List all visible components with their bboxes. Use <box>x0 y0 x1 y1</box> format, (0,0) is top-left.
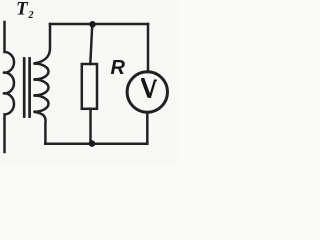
wire top horizontal <box>50 23 148 26</box>
svg-text:T: T <box>16 0 29 20</box>
node junction top <box>89 21 96 28</box>
secondary winding cusp knots <box>33 62 36 113</box>
transformer T2 secondary winding <box>34 24 50 144</box>
primary winding cusp knots <box>3 71 6 95</box>
wire voltmeter bottom <box>146 112 149 144</box>
node junction bottom <box>89 140 96 147</box>
resistor R body <box>82 64 97 109</box>
svg-text:R: R <box>111 57 126 79</box>
transformer T2 primary winding <box>5 22 15 152</box>
voltmeter V body <box>127 72 167 112</box>
wire bottom horizontal <box>45 143 147 146</box>
paper noise <box>0 0 179 164</box>
wire right vertical to voltmeter <box>147 24 150 72</box>
label V (meter) <box>141 79 157 98</box>
wire resistor top lead <box>90 24 92 64</box>
wire resistor bottom lead <box>89 109 92 144</box>
svg-text:2: 2 <box>28 10 34 21</box>
transformer T2 core <box>24 59 29 117</box>
